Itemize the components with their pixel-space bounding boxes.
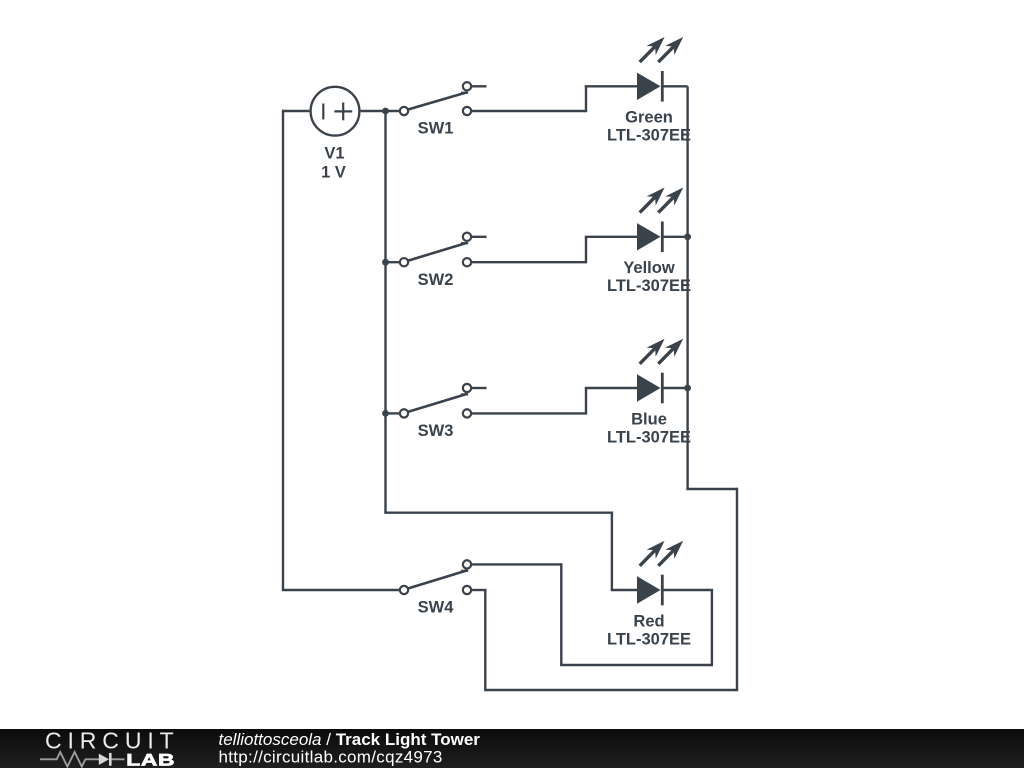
- switch SW1 top throw terminal: [463, 82, 471, 90]
- switch SW4 pivot terminal: [400, 586, 408, 594]
- wire SW2 top throw open stub: [472, 236, 487, 238]
- wire cathode bus jog right: [686, 488, 737, 490]
- LED Red LTL-307EE: [637, 541, 683, 606]
- svg-text:Red: Red: [633, 612, 664, 630]
- wire V1 minus lead to left bus: [282, 110, 309, 112]
- wire to Green LED anode: [585, 85, 639, 87]
- wire plus bus vertical (junction down to red branch): [384, 111, 386, 513]
- wire left bus to SW4 pivot: [282, 589, 399, 591]
- LED Blue LTL-307EE: [637, 339, 683, 404]
- switch SW1 lever: [405, 92, 468, 110]
- svg-text:LTL-307EE: LTL-307EE: [607, 127, 691, 145]
- wire bottom rail: [485, 689, 738, 691]
- wire V1 plus lead to SW1 pivot: [361, 110, 399, 112]
- switch SW1 pivot terminal: [400, 107, 408, 115]
- wire red LED anode lead: [611, 589, 639, 591]
- switch SW3 pivot terminal: [400, 409, 408, 417]
- switch SW2 pivot terminal: [400, 258, 408, 266]
- switch SW1 bottom throw terminal: [463, 107, 471, 115]
- svg-text:1 V: 1 V: [321, 164, 346, 182]
- svg-text:LTL-307EE: LTL-307EE: [607, 630, 691, 648]
- switch SW2 top throw terminal: [463, 233, 471, 241]
- svg-text:LAB: LAB: [126, 751, 175, 768]
- wire SW1 top throw open stub: [472, 85, 487, 87]
- voltage source V1 body: [311, 87, 360, 136]
- LED Green LTL-307EE: [637, 37, 683, 102]
- junction node SW3 pivot: [382, 410, 389, 417]
- wire red branch drop to red LED anode: [611, 512, 613, 591]
- wire SW2 bottom throw to step corner: [472, 261, 586, 263]
- wire red LED cathode lead: [662, 589, 713, 591]
- svg-text:CIRCUIT: CIRCUIT: [45, 728, 180, 754]
- switch SW2 bottom throw terminal: [463, 258, 471, 266]
- wire step riser (SW3 row): [585, 388, 587, 415]
- svg-text:V1: V1: [324, 145, 344, 163]
- wire cathode bus vertical: [686, 86, 688, 489]
- logo resistor-diode glyph: [40, 752, 125, 767]
- wire SW3 bottom throw to step corner: [472, 412, 586, 414]
- wire left bus vertical (V1 minus down to SW4 row): [282, 110, 284, 590]
- wire inner loop bottom: [560, 664, 712, 666]
- wire SW3 top throw open stub: [472, 387, 487, 389]
- svg-text:LTL-307EE: LTL-307EE: [607, 428, 691, 446]
- svg-text:telliottosceola / Track Light: telliottosceola / Track Light Tower: [219, 730, 481, 749]
- junction node SW2 pivot: [382, 259, 389, 266]
- svg-text:http://circuitlab.com/cqz4973: http://circuitlab.com/cqz4973: [219, 748, 443, 767]
- switch SW3 lever: [405, 394, 468, 413]
- wire red cathode riser: [711, 590, 713, 666]
- svg-text:Green: Green: [625, 109, 673, 127]
- wire right bus vertical: [736, 488, 738, 690]
- svg-text:SW3: SW3: [418, 422, 454, 440]
- switch SW4 top throw terminal: [463, 560, 471, 568]
- wire SW4 bottom throw riser: [484, 590, 486, 691]
- junction node blue cathode: [684, 385, 691, 392]
- wire Blue LED cathode to bus: [662, 387, 687, 389]
- wire SW4 bottom throw stub: [472, 589, 487, 591]
- wire inner loop drop: [560, 563, 562, 665]
- svg-text:Yellow: Yellow: [623, 259, 675, 277]
- wire plus bus stub to SW3 pivot: [386, 412, 400, 414]
- switch SW3 top throw terminal: [463, 384, 471, 392]
- svg-text:SW1: SW1: [418, 120, 454, 138]
- switch SW4 lever: [405, 570, 468, 589]
- switch SW4 bottom throw terminal: [463, 586, 471, 594]
- junction node V1 plus / SW1: [382, 108, 389, 115]
- wire to Blue LED anode: [585, 387, 639, 389]
- junction node yellow cathode: [684, 233, 691, 240]
- LED Yellow LTL-307EE: [637, 188, 683, 253]
- wire red branch horizontal run: [384, 512, 612, 514]
- svg-text:SW2: SW2: [418, 271, 454, 289]
- switch SW2 lever: [405, 243, 468, 262]
- wire SW1 bottom throw to step corner: [472, 110, 586, 112]
- wire step riser (SW2 row): [585, 237, 587, 264]
- svg-text:Blue: Blue: [631, 410, 667, 428]
- wire SW4 top throw run: [472, 563, 561, 565]
- svg-text:SW4: SW4: [418, 599, 455, 617]
- wire Green LED cathode to bus: [662, 85, 687, 87]
- wire Yellow LED cathode to bus: [662, 236, 687, 238]
- wire plus bus stub to SW2 pivot: [386, 261, 400, 263]
- wire step riser (SW1 row): [585, 86, 587, 112]
- switch SW3 bottom throw terminal: [463, 409, 471, 417]
- wire to Yellow LED anode: [585, 236, 639, 238]
- svg-text:LTL-307EE: LTL-307EE: [607, 277, 691, 295]
